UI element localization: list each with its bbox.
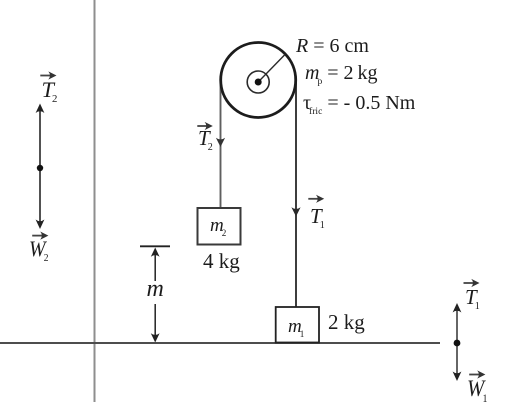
label m (height) <box>147 277 164 301</box>
height tick <box>140 245 170 247</box>
label m2 (in box) <box>210 216 226 238</box>
vector arrow over T1 (rope) <box>308 195 324 203</box>
pulley axle dot <box>255 79 262 86</box>
rope T1 arrowhead <box>291 207 300 216</box>
vector arrow over T2 (FBD m2) <box>40 71 56 79</box>
FBD m2 particle dot <box>37 165 43 171</box>
vector arrow over W2 (FBD m2) <box>32 232 48 240</box>
label 4 kg <box>203 251 240 272</box>
mass m2 box <box>198 208 241 245</box>
pulley radius line <box>258 55 285 83</box>
label m1 (in box) <box>288 317 304 339</box>
label W1 (FBD m1) <box>467 377 487 405</box>
rope left segment <box>220 80 222 208</box>
pulley inner hub circle <box>247 71 269 93</box>
rope right segment <box>295 80 297 307</box>
label 2 kg <box>328 312 365 333</box>
label T1 (rope) <box>310 206 325 231</box>
FBD m2 line <box>39 108 41 224</box>
FBD m1 particle dot <box>454 340 461 347</box>
vector arrow over W1 (FBD m1) <box>469 370 485 378</box>
label W2 (FBD m2) <box>29 238 48 265</box>
FBD m2 up arrowhead <box>36 104 45 114</box>
label tau_fric = -0.5 Nm <box>303 93 415 117</box>
mass m1 box <box>276 307 319 343</box>
label R = 6 cm <box>296 36 369 56</box>
FBD m1 line <box>456 307 458 377</box>
height arrow upper head <box>151 248 160 257</box>
label T2 (rope) <box>198 128 213 153</box>
height arrow upper segment <box>154 250 156 281</box>
floor line <box>0 342 440 344</box>
pulley outer circle <box>221 43 296 118</box>
FBD m1 down arrowhead <box>453 372 462 382</box>
rope T2 arrowhead <box>216 138 225 147</box>
label m_p = 2 kg <box>305 63 378 87</box>
label T1 (FBD m1) <box>465 287 480 312</box>
FBD m2 down arrowhead <box>36 220 45 230</box>
height arrow lower head <box>151 333 160 342</box>
label T2 (FBD m2) <box>42 79 58 105</box>
height arrow lower segment <box>154 304 156 338</box>
vector arrow over T2 (rope) <box>197 122 213 130</box>
axis vertical line <box>94 0 96 402</box>
FBD m1 up arrowhead <box>453 303 462 313</box>
vector arrow over T1 (FBD m1) <box>464 279 480 287</box>
